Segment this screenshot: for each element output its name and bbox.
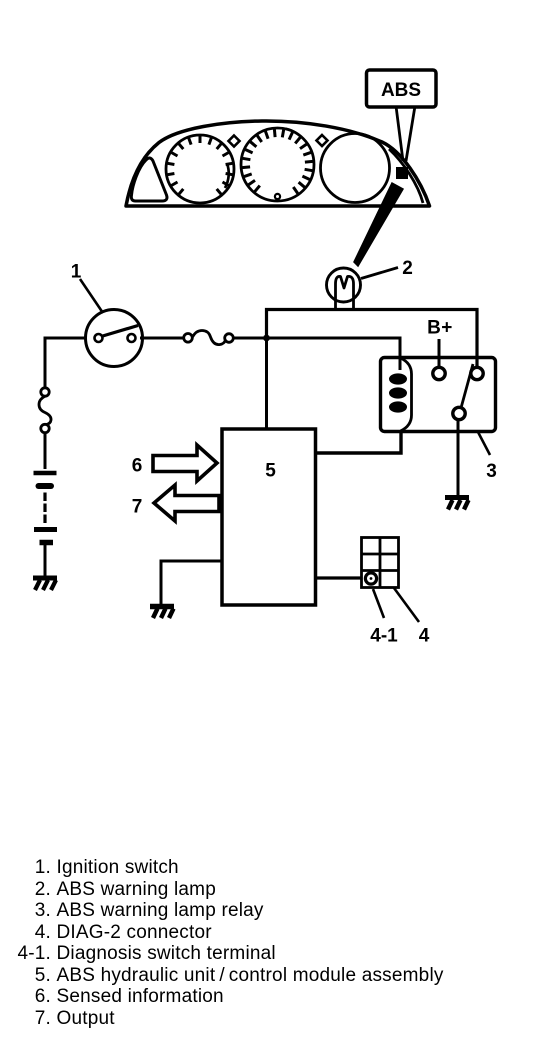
- label 1 leader line: [80, 279, 103, 313]
- wire: relay output to ground: [457, 420, 460, 495]
- svg-text:6: 6: [132, 456, 143, 477]
- wire: connector to relay coil: [233, 338, 400, 370]
- svg-text:1: 1: [71, 262, 82, 283]
- wire: relay coil to module 5: [315, 431, 401, 453]
- gauge 2 dial circle: [241, 128, 314, 201]
- svg-text:3: 3: [486, 461, 497, 482]
- wire: connector to battery: [44, 432, 47, 469]
- wire: switch to inline connector: [140, 337, 184, 340]
- label 4 leader line: [394, 588, 419, 622]
- wire: module to DIAG-2 connector: [314, 576, 362, 579]
- svg-text:2: 2: [402, 258, 413, 279]
- relay switch blade: [461, 364, 473, 408]
- wire: B+ feed: [438, 339, 441, 367]
- instrument cluster outline: [126, 121, 430, 206]
- gauge 1 tick marks: [168, 136, 233, 194]
- ignition switch contacts: [95, 334, 103, 342]
- DIAG-2 connector (4) grid: [362, 538, 399, 588]
- wire: switch to left branch: [45, 338, 86, 388]
- relay switch common terminal: [471, 367, 483, 379]
- ground (battery): [33, 578, 57, 590]
- arrow 7 (output, out of module): [154, 485, 219, 521]
- svg-text:4: 4: [419, 626, 430, 647]
- ignition switch blade: [101, 326, 138, 337]
- gauge 2 tick marks: [242, 129, 313, 194]
- ground (relay): [445, 498, 469, 510]
- ABS hydraulic unit / control module (5) box: [222, 429, 316, 605]
- junction node: [263, 335, 270, 342]
- svg-text:B+: B+: [427, 318, 453, 339]
- pointer arrow from cluster to warning lamp: [354, 183, 403, 266]
- diamond indicator left: [229, 136, 240, 147]
- svg-text:7: 7: [132, 497, 143, 518]
- label 2 leader line: [361, 268, 398, 279]
- left inline connector (vertical): [41, 388, 49, 396]
- svg-text:5: 5: [265, 461, 276, 482]
- gauge 2 bottom dot: [275, 194, 280, 199]
- ignition switch (1) body: [86, 310, 143, 367]
- svg-text:4-1: 4-1: [370, 626, 398, 647]
- relay coil: [401, 358, 412, 431]
- gauge 3 dial circle: [321, 134, 390, 203]
- inline connector (switch to bus): [184, 334, 193, 343]
- ABS indicator callout box: [367, 70, 437, 107]
- warning lamp filament and base legs: [336, 276, 354, 310]
- arrow 6 (sensed information, into module): [153, 445, 217, 481]
- diagnosis switch terminal (4-1): [365, 573, 376, 584]
- label 3 leader line: [478, 432, 490, 455]
- ABS warning lamp relay (3) box: [381, 358, 496, 432]
- ABS lamp window (black square on cluster): [396, 167, 408, 179]
- wire: battery to ground: [44, 545, 47, 576]
- cluster left triangle vent: [131, 158, 167, 201]
- wire: module to left ground: [161, 561, 222, 604]
- gauge 1 dial circle: [166, 135, 234, 203]
- svg-text:ABS: ABS: [381, 80, 421, 101]
- diamond indicator right: [317, 135, 328, 146]
- wire: junction down to module 5: [265, 338, 268, 430]
- legend list: [0, 857, 544, 1029]
- battery: [34, 471, 57, 476]
- relay B+ terminal: [433, 367, 445, 379]
- ground (module): [150, 607, 174, 619]
- warning lamp bulb (2): [327, 268, 361, 302]
- gauge 1 odometer window arc: [225, 164, 229, 189]
- cluster inner right edge: [389, 149, 423, 203]
- callout tail to cluster: [396, 106, 415, 161]
- relay switch output terminal: [453, 407, 465, 419]
- label 4-1 leader line: [373, 589, 384, 618]
- wire: lamp top bus: [267, 310, 478, 368]
